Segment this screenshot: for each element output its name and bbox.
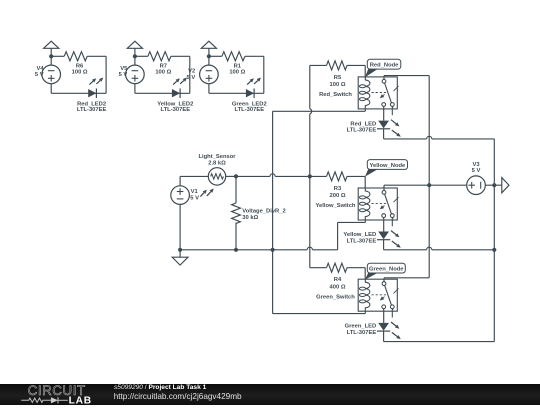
voltage source V5: [119, 56, 145, 93]
svg-text:R5: R5: [334, 75, 342, 81]
junction: [133, 54, 137, 58]
svg-text:LTL-307EE: LTL-307EE: [161, 107, 191, 113]
resistor Voltage_DivR_2: [232, 176, 286, 249]
svg-text:100 Ω: 100 Ω: [330, 82, 346, 88]
wire (yellow LED out, hop over V3+ bus): [384, 247, 495, 250]
resistor R3: [327, 172, 348, 199]
svg-text:5 V: 5 V: [186, 75, 195, 81]
wire: [485, 184, 502, 186]
svg-text:Red_LED: Red_LED: [350, 121, 376, 127]
photoresistor Light_Sensor: [198, 154, 236, 197]
LED Yellow_LED2: [157, 78, 193, 114]
wire: [310, 175, 327, 177]
svg-text:Green_Switch: Green_Switch: [316, 294, 355, 300]
node flag (V3 output): [502, 178, 509, 193]
wire (V3- bus vertical): [493, 139, 495, 342]
voltage source V4: [35, 56, 61, 93]
ground bus wire (hop over tap bus): [180, 247, 338, 250]
svg-text:LTL-307EE: LTL-307EE: [347, 128, 377, 134]
wire: [347, 65, 365, 77]
svg-text:100 Ω: 100 Ω: [72, 69, 88, 75]
relay Red_Switch: [319, 77, 398, 115]
wire: [245, 55, 264, 57]
junction: [49, 54, 53, 58]
node label Yellow_Node: [365, 160, 408, 177]
wire (red coil return, hop over tap bus): [273, 110, 366, 112]
svg-text:Green_LED: Green_LED: [345, 324, 377, 330]
svg-text:100 Ω: 100 Ω: [229, 69, 245, 75]
resistor R5: [327, 61, 348, 88]
wire: [310, 64, 327, 66]
footer bar: [0, 384, 540, 405]
wire (V3+ bus vertical): [428, 76, 430, 278]
relay Green_Switch: [316, 279, 398, 317]
svg-text:100 Ω: 100 Ω: [155, 69, 171, 75]
svg-text:LTL-307EE: LTL-307EE: [347, 330, 377, 336]
wire: [87, 55, 106, 57]
resistor R7: [148, 52, 172, 76]
CircuitLab logo: [0, 384, 110, 405]
wire: [135, 55, 148, 57]
wire (tap to R3 row, hop over return wire): [236, 174, 310, 177]
wire (tap bus vertical, hops over red return): [310, 65, 312, 267]
LED Red_LED2: [77, 78, 107, 114]
junction: [271, 248, 275, 252]
svg-text:5 V: 5 V: [472, 168, 481, 174]
wire: [105, 56, 107, 93]
wire (green LED out): [384, 341, 495, 343]
wire (red LED out, hop over V3+ bus): [384, 136, 495, 139]
wire: [347, 268, 365, 280]
svg-text:5 V: 5 V: [35, 72, 44, 78]
resistor R4: [327, 263, 348, 290]
svg-text:LAB: LAB: [69, 395, 92, 405]
wire: [180, 175, 208, 177]
wire: [51, 92, 106, 94]
LED Green_LED2: [232, 78, 267, 114]
node flag (top of V2 circuit): [201, 41, 216, 48]
svg-text:Green_Node: Green_Node: [369, 267, 404, 273]
svg-text:R4: R4: [334, 277, 342, 283]
wire (coil return vertical): [272, 111, 274, 313]
svg-text:5 V: 5 V: [190, 195, 199, 201]
wire: [171, 55, 190, 57]
voltage source V1: [171, 176, 199, 249]
wire: [226, 175, 236, 177]
wire: [383, 309, 385, 323]
svg-text:LTL-307EE: LTL-307EE: [347, 238, 377, 244]
wire: [383, 106, 385, 120]
wire: [50, 48, 52, 56]
wire: [189, 56, 191, 93]
svg-text:V4: V4: [37, 66, 45, 72]
wire: [208, 48, 210, 56]
node label Red_Node: [365, 59, 401, 77]
junction: [207, 54, 211, 58]
svg-text:5 V: 5 V: [119, 72, 128, 78]
svg-text:R3: R3: [334, 186, 342, 192]
LED Yellow_LED: [343, 231, 400, 248]
svg-text:Yellow_Switch: Yellow_Switch: [316, 203, 356, 209]
wire: [134, 48, 136, 56]
junction: [427, 183, 431, 187]
wire (green switch common): [384, 278, 429, 282]
wire: [51, 55, 64, 57]
wire: [383, 331, 385, 342]
junction: [234, 174, 238, 178]
resistor R1: [222, 52, 246, 76]
wire: [263, 56, 265, 93]
relay Yellow_Switch: [316, 188, 399, 226]
wire: [383, 240, 385, 250]
svg-text:400 Ω: 400 Ω: [330, 284, 346, 290]
svg-text:200 Ω: 200 Ω: [330, 193, 346, 199]
junction: [492, 183, 496, 187]
svg-text:30 kΩ: 30 kΩ: [242, 215, 258, 221]
svg-text:LTL-307EE: LTL-307EE: [77, 107, 107, 113]
wire (green coil return): [273, 313, 366, 315]
LED Green_LED: [345, 322, 401, 339]
wire: [383, 218, 385, 232]
svg-text:2.8 kΩ: 2.8 kΩ: [208, 160, 226, 166]
ground: [172, 250, 188, 265]
node flag (top of V5 circuit): [127, 41, 142, 48]
svg-text:V5: V5: [120, 66, 128, 72]
junction: [234, 248, 238, 252]
wire (red switch common): [384, 76, 429, 80]
junction: [492, 248, 496, 252]
wire: [347, 176, 365, 188]
voltage source V3: [467, 162, 486, 195]
voltage source V2: [186, 56, 218, 93]
wire: [209, 55, 222, 57]
svg-text:Yellow_Node: Yellow_Node: [370, 163, 407, 169]
wire (yellow switch common to V3): [384, 185, 467, 190]
wire (yellow coil return): [338, 222, 366, 249]
svg-text:Light_Sensor: Light_Sensor: [198, 154, 236, 160]
svg-text:V1: V1: [191, 189, 199, 195]
svg-text:Red_Node: Red_Node: [370, 63, 399, 69]
svg-text:Voltage_DivR_2: Voltage_DivR_2: [242, 208, 285, 214]
svg-text:V2: V2: [188, 69, 195, 75]
svg-text:Red_Switch: Red_Switch: [319, 92, 352, 98]
junction: [178, 248, 182, 252]
node flag (top of V4 circuit): [44, 41, 59, 48]
wire: [310, 267, 327, 269]
svg-text:LTL-307EE: LTL-307EE: [235, 107, 265, 113]
node label Green_Node: [365, 263, 405, 279]
wire: [383, 129, 385, 139]
wire: [135, 92, 190, 94]
svg-text:Yellow_LED: Yellow_LED: [343, 232, 376, 238]
junction: [308, 174, 312, 178]
resistor R6: [64, 52, 88, 76]
LED Red_LED: [347, 120, 401, 137]
wire: [209, 92, 264, 94]
